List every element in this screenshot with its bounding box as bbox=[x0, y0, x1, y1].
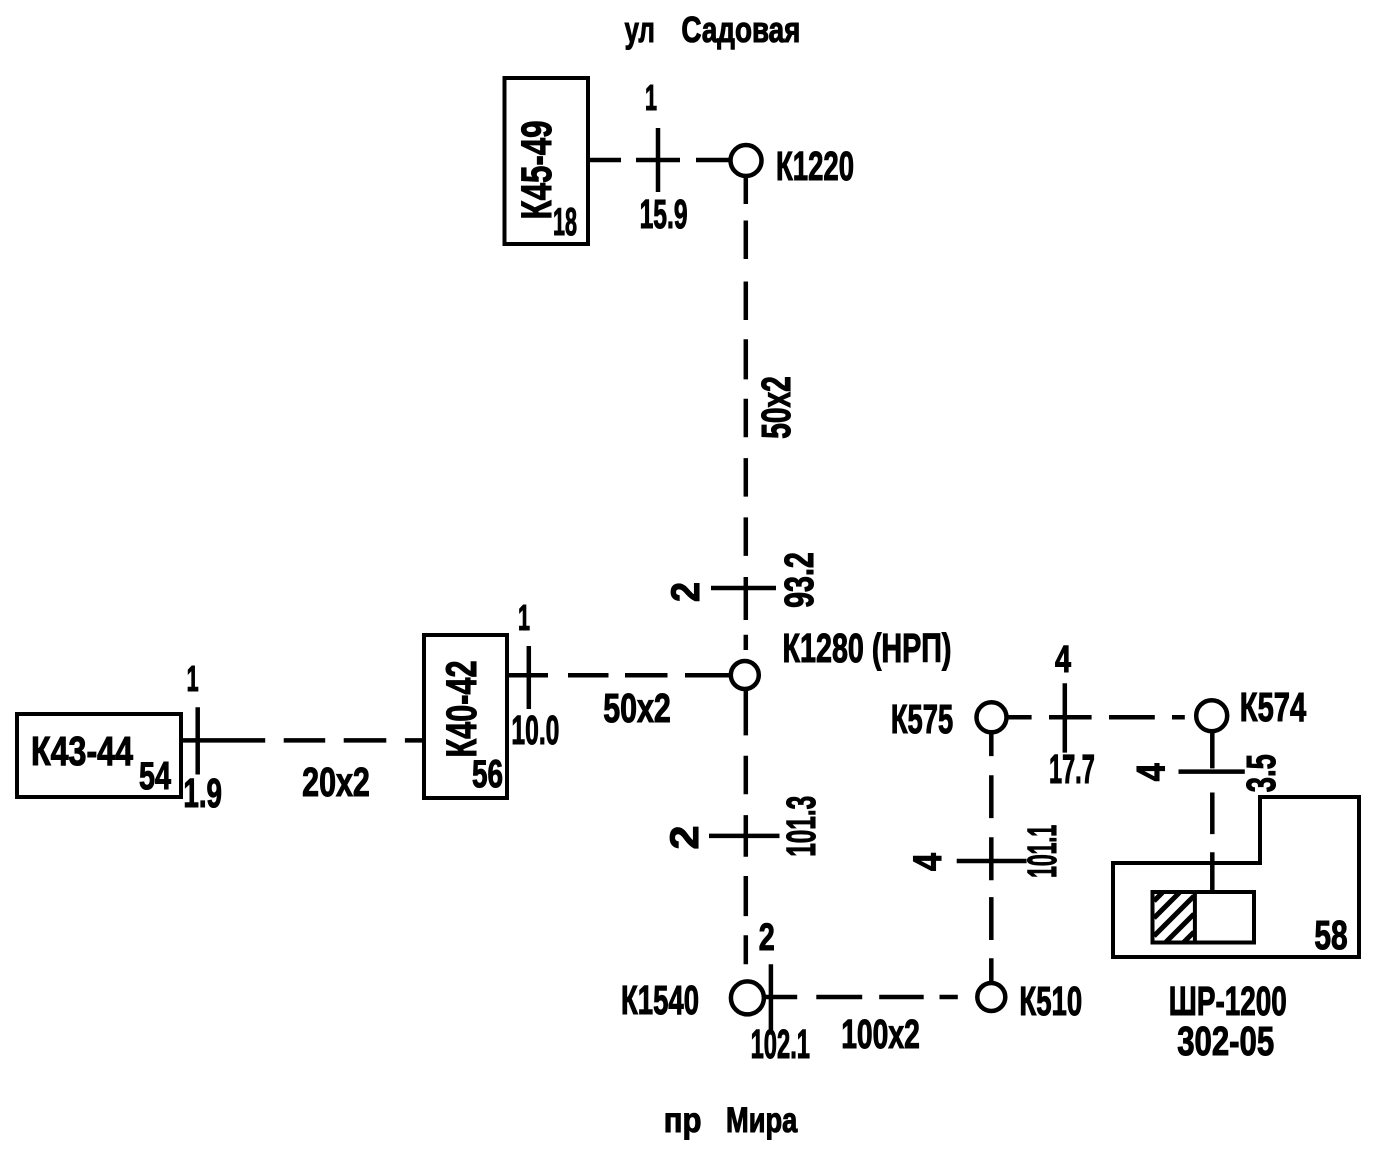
svg-text:58: 58 bbox=[1314, 912, 1347, 958]
tick T3 bbox=[527, 646, 532, 709]
svg-text:54: 54 bbox=[139, 755, 171, 798]
svg-text:4: 4 bbox=[1055, 639, 1071, 681]
tick T8 bbox=[1063, 683, 1068, 752]
wire К40-42 to К1280 bbox=[507, 673, 731, 678]
building К40-42 bbox=[424, 635, 507, 798]
svg-text:18: 18 bbox=[553, 201, 577, 244]
svg-text:2: 2 bbox=[759, 917, 775, 959]
tick T9 bbox=[1179, 769, 1245, 774]
tick T4 bbox=[711, 586, 776, 591]
node К574 bbox=[1196, 700, 1227, 731]
svg-text:102.1: 102.1 bbox=[751, 1021, 810, 1067]
svg-text:50x2: 50x2 bbox=[753, 376, 799, 439]
wire К575 to К574 bbox=[1008, 715, 1185, 720]
wire К510 to К575 (vertical) bbox=[989, 733, 994, 983]
svg-text:20x2: 20x2 bbox=[302, 759, 370, 805]
svg-text:50x2: 50x2 bbox=[603, 685, 671, 731]
svg-text:1: 1 bbox=[187, 658, 199, 699]
node К1220 bbox=[731, 145, 762, 176]
svg-text:2: 2 bbox=[664, 582, 708, 602]
building 58 outline bbox=[1113, 797, 1359, 957]
svg-text:ул: ул bbox=[625, 9, 655, 50]
cabinet divider bbox=[1193, 892, 1197, 943]
svg-text:К40-42: К40-42 bbox=[438, 661, 486, 758]
node К510 bbox=[977, 983, 1005, 1011]
svg-text:101.1: 101.1 bbox=[1019, 825, 1065, 878]
svg-text:1: 1 bbox=[518, 597, 530, 638]
tick T5 bbox=[709, 834, 780, 839]
tick T2 bbox=[195, 707, 200, 774]
svg-text:Садовая: Садовая bbox=[681, 9, 800, 50]
wire К1540 to К510 bbox=[764, 995, 958, 1000]
svg-text:15.9: 15.9 bbox=[640, 191, 688, 237]
cabinet ШР-1200 box bbox=[1153, 892, 1255, 943]
svg-text:К1540: К1540 bbox=[621, 977, 699, 1023]
svg-text:93.2: 93.2 bbox=[776, 552, 822, 608]
svg-text:4: 4 bbox=[906, 852, 950, 871]
wire К574 to cabinet (vertical) bbox=[1210, 731, 1215, 894]
svg-text:пр: пр bbox=[664, 1101, 702, 1140]
svg-text:Мира: Мира bbox=[726, 1101, 798, 1140]
svg-text:302-05: 302-05 bbox=[1177, 1018, 1274, 1064]
svg-text:К510: К510 bbox=[1019, 978, 1082, 1024]
tick T1 bbox=[656, 128, 661, 192]
tick T6 bbox=[769, 964, 774, 1031]
wire К43-44 to К40-42 bbox=[181, 738, 425, 743]
node К575 bbox=[977, 702, 1007, 732]
svg-text:1.9: 1.9 bbox=[183, 770, 222, 816]
wire К1280 to К1540 (vertical) bbox=[744, 689, 749, 964]
cabinet hatch bbox=[1154, 893, 1194, 943]
svg-text:10.0: 10.0 bbox=[511, 707, 559, 753]
svg-text:2: 2 bbox=[663, 826, 707, 850]
svg-text:4: 4 bbox=[1129, 763, 1173, 782]
svg-text:3.5: 3.5 bbox=[1238, 754, 1284, 792]
building К45-49 bbox=[505, 78, 589, 244]
svg-text:К574: К574 bbox=[1240, 684, 1307, 730]
svg-text:101.3: 101.3 bbox=[778, 796, 824, 857]
svg-text:К1280 (НРП): К1280 (НРП) bbox=[783, 625, 952, 671]
node К1280 bbox=[731, 661, 759, 689]
svg-text:К43-44: К43-44 bbox=[31, 728, 133, 774]
svg-text:56: 56 bbox=[472, 753, 503, 796]
svg-text:17.7: 17.7 bbox=[1049, 746, 1095, 792]
building К43-44 bbox=[17, 714, 181, 797]
tick T7 bbox=[957, 859, 1027, 864]
wire К1220 to К1280 (vertical) bbox=[744, 177, 749, 651]
node К1540 bbox=[731, 981, 764, 1014]
wire К45-49 to К1220 bbox=[588, 158, 729, 163]
svg-text:К1220: К1220 bbox=[776, 143, 854, 189]
svg-text:100x2: 100x2 bbox=[841, 1011, 920, 1057]
svg-text:К575: К575 bbox=[891, 696, 953, 742]
svg-text:1: 1 bbox=[645, 77, 657, 118]
